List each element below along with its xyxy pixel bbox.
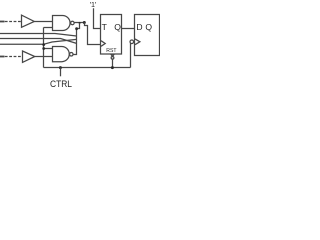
node RST junction [111, 66, 114, 69]
wire constant 1 to T input [94, 8, 101, 28]
U2 reset bubble [111, 56, 114, 59]
wire U2 reset to bus [112, 59, 114, 67]
nand G2 [53, 47, 70, 62]
wire input IN3 crossing [0, 39, 77, 44]
svg-text:Q: Q [114, 22, 121, 32]
wire input IN1 (dashed) [0, 21, 5, 23]
svg-text:RST: RST [106, 48, 117, 54]
wire G1 output [74, 22, 84, 24]
nand G1 bubble [71, 21, 75, 25]
wire input IN2 [0, 34, 77, 37]
svg-text:T: T [102, 22, 108, 32]
wire vertical feedback [43, 28, 45, 68]
flip-flop U2 box [101, 15, 122, 55]
svg-text:'1': '1' [90, 0, 97, 9]
wire input IN4 (dashed) [0, 56, 5, 58]
svg-text:D: D [136, 22, 142, 32]
nand G1 [53, 16, 71, 31]
node E [75, 27, 78, 30]
node C [42, 43, 45, 46]
wire G2 upper input [44, 48, 53, 50]
flip-flop U3 box [135, 15, 160, 56]
wire bus to U3 clock [130, 43, 132, 68]
nand G2 bubble [70, 53, 74, 57]
svg-text:CTRL: CTRL [50, 79, 72, 90]
wire G2 output riser [73, 23, 79, 55]
node D [42, 47, 45, 50]
node A [79, 22, 81, 24]
wire CTRL stub [60, 68, 62, 77]
U3 clock bubble [130, 40, 134, 44]
wire node C diagonal [44, 39, 77, 44]
wire U1 to G1 [34, 21, 52, 23]
U2 clock wedge [101, 41, 105, 47]
wire T Q to D input [122, 28, 135, 30]
buffer U1 [22, 15, 35, 27]
wire input IN5 [0, 43, 44, 45]
wire node B to T clock [85, 23, 101, 45]
wire control bus [44, 67, 131, 69]
wire G1 lower input [44, 27, 53, 29]
svg-text:Q: Q [145, 22, 152, 32]
U2 reset wedge [111, 54, 114, 56]
node CTRL junction [59, 66, 62, 69]
buffer U4 [23, 51, 35, 62]
U3 clock wedge [135, 39, 140, 45]
node B [83, 21, 86, 24]
wire U4 to G2 [35, 56, 53, 58]
